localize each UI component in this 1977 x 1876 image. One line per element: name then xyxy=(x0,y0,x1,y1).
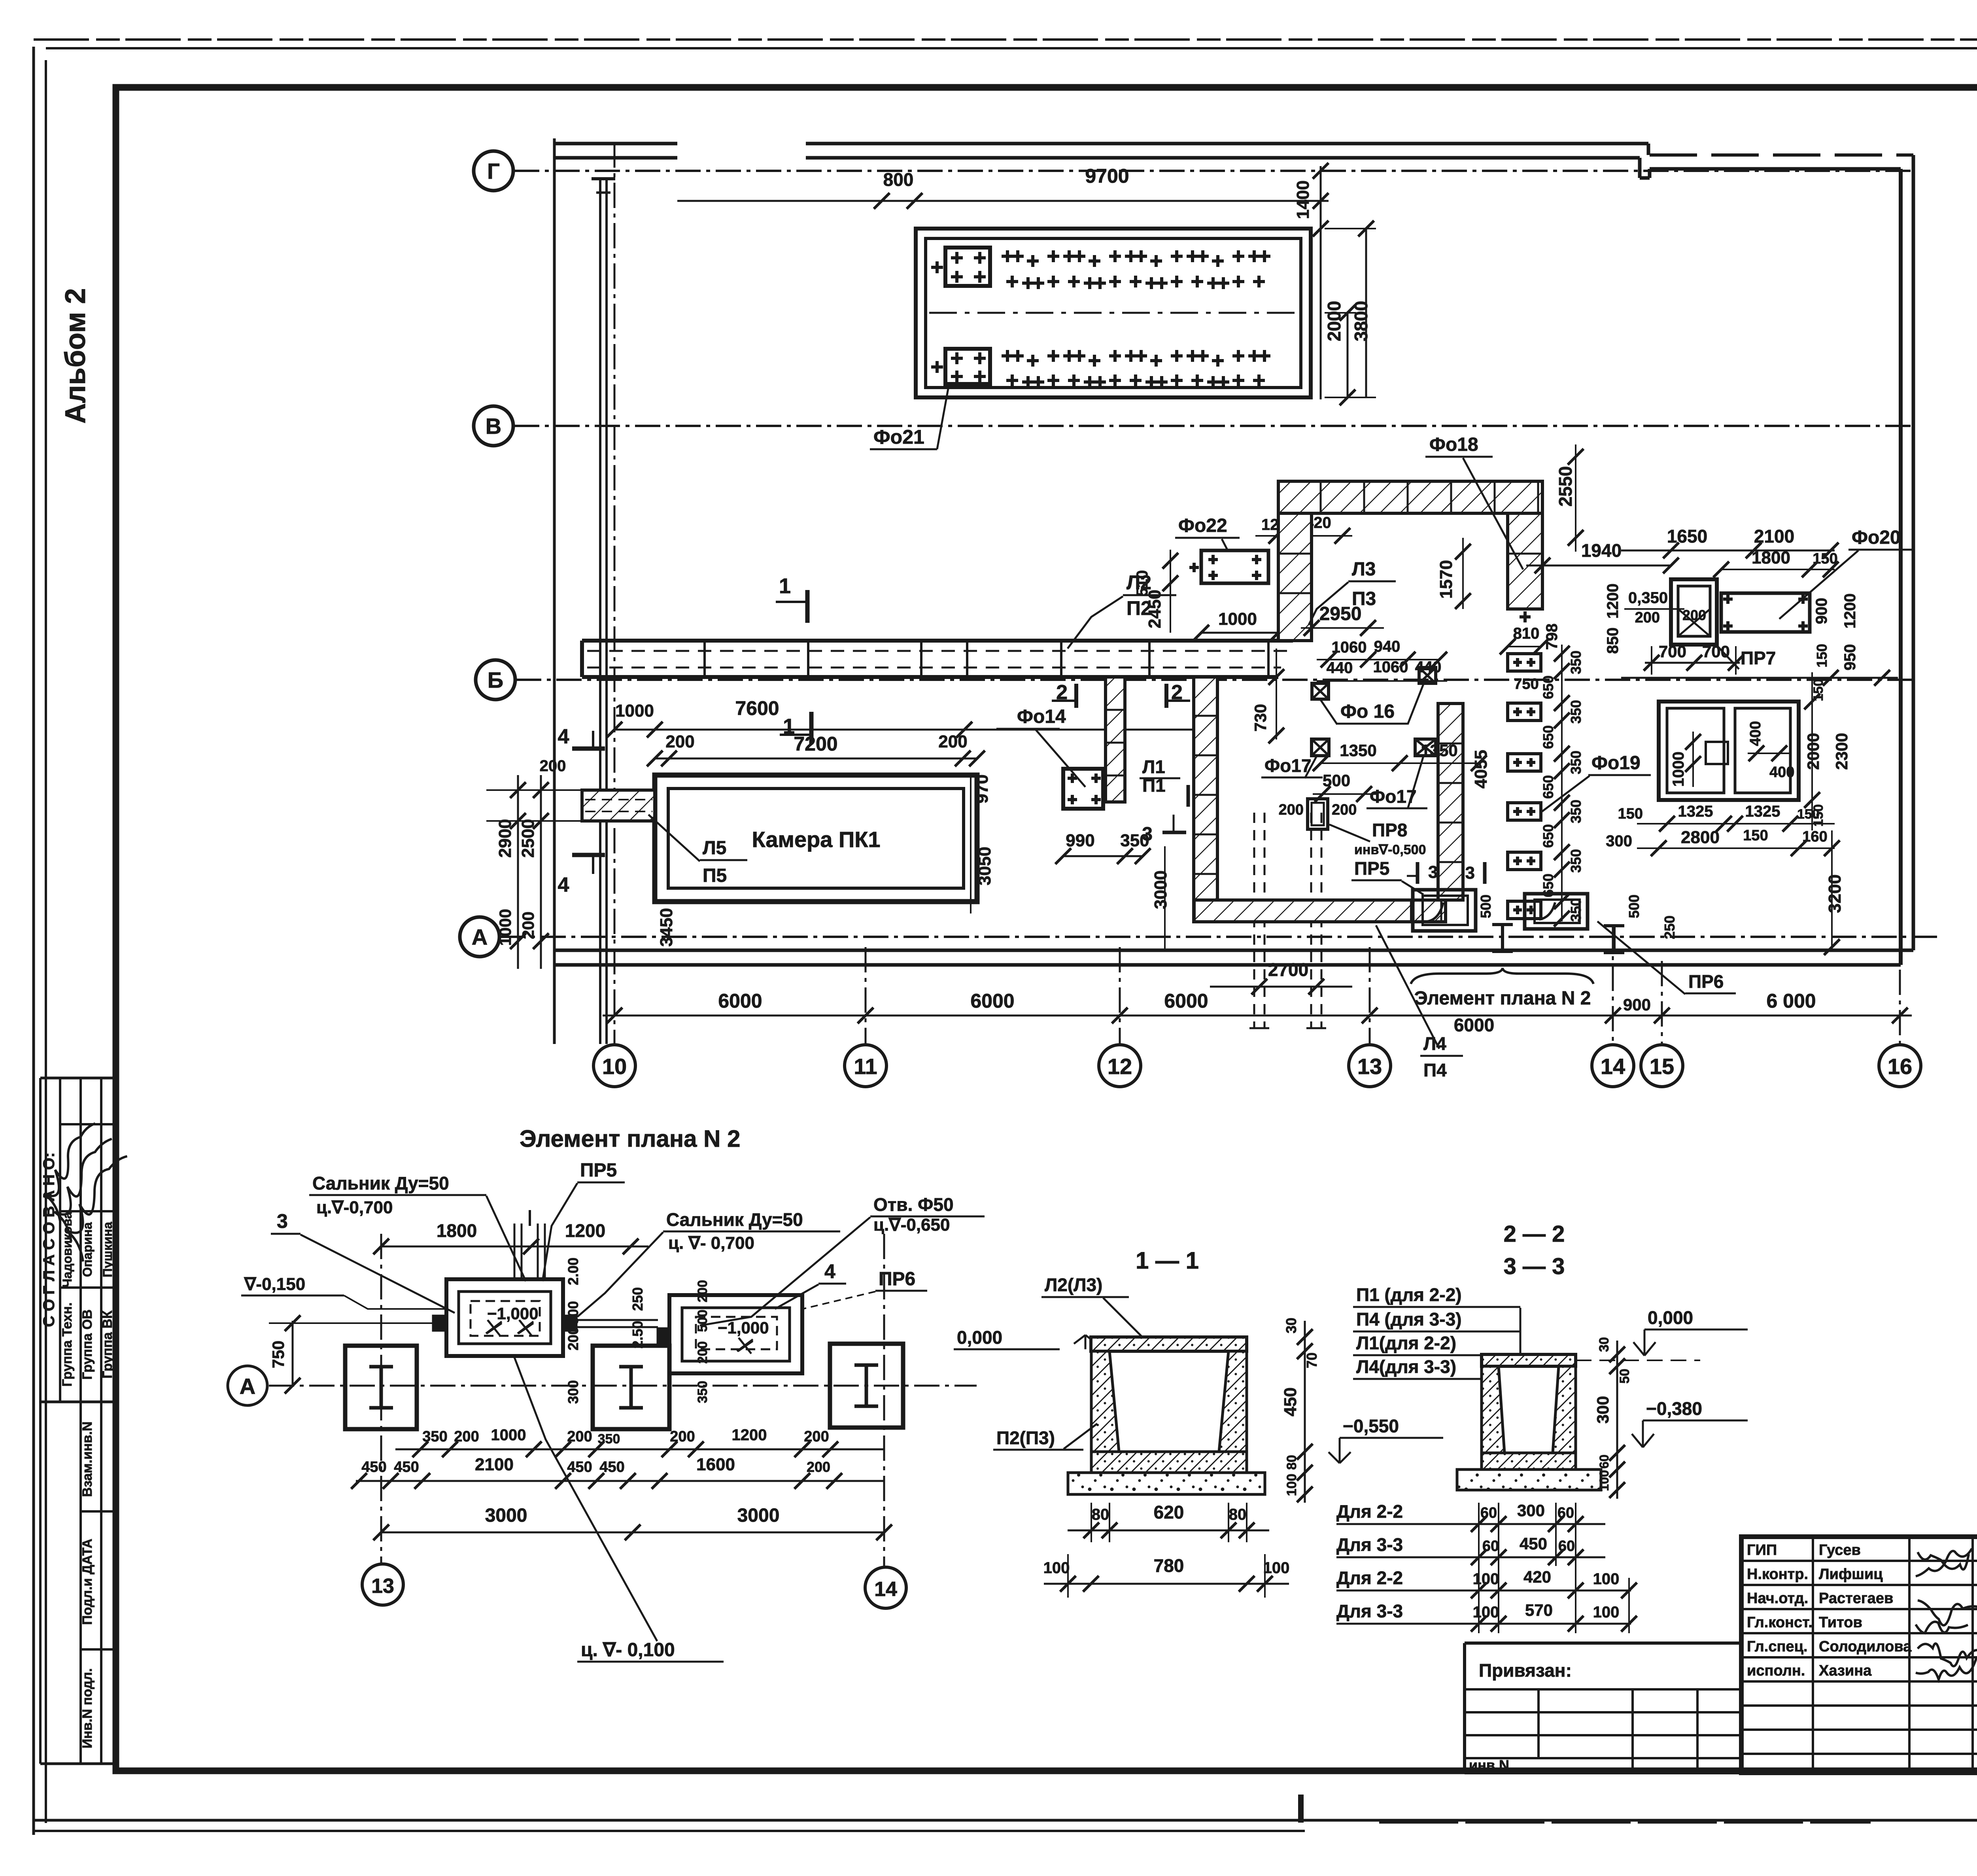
detail chamber ПР6 inner dashed xyxy=(696,1317,777,1349)
svg-text:150: 150 xyxy=(1743,827,1768,844)
svg-text:1000: 1000 xyxy=(615,701,654,721)
dimension 1800 150 xyxy=(1721,569,1835,570)
svg-text:3: 3 xyxy=(1465,863,1475,883)
detail bottom dim row 2 xyxy=(356,1480,884,1482)
svg-text:850: 850 xyxy=(1604,628,1622,654)
section 2-2 bottom slab xyxy=(1482,1453,1576,1469)
svg-text:исполн.: исполн. xyxy=(1747,1662,1805,1679)
svg-text:А: А xyxy=(240,1374,255,1399)
svg-text:ПР6: ПР6 xyxy=(879,1269,915,1290)
foundation Фо14 square xyxy=(1063,769,1103,809)
svg-text:4: 4 xyxy=(558,725,569,748)
section 1-1 right dim column xyxy=(1304,1321,1306,1503)
axis circle Г xyxy=(474,151,513,191)
section 2-2 left wall xyxy=(1482,1366,1504,1453)
svg-text:6 000: 6 000 xyxy=(1766,990,1816,1012)
svg-text:200: 200 xyxy=(1279,802,1304,818)
svg-text:ПР5: ПР5 xyxy=(1354,858,1389,879)
svg-text:1325: 1325 xyxy=(1678,803,1713,820)
svg-text:13: 13 xyxy=(1357,1054,1382,1079)
svg-text:1570: 1570 xyxy=(1436,560,1456,599)
section 1-1 lid xyxy=(1091,1337,1247,1351)
axis line В xyxy=(514,425,1913,427)
svg-text:1600: 1600 xyxy=(696,1455,735,1474)
dimension 2550 vertical xyxy=(1575,444,1576,552)
axis circle А xyxy=(460,917,499,957)
svg-text:3050: 3050 xyxy=(975,847,994,885)
svg-text:450: 450 xyxy=(394,1459,419,1475)
svg-text:1200: 1200 xyxy=(1841,594,1859,629)
svg-text:Солодилова: Солодилова xyxy=(1819,1638,1912,1655)
svg-text:0,000: 0,000 xyxy=(957,1327,1002,1348)
axis circle 12 xyxy=(1099,1045,1141,1087)
svg-text:ПР7: ПР7 xyxy=(1741,648,1776,668)
svg-text:80: 80 xyxy=(1229,1506,1247,1523)
svg-text:А: А xyxy=(472,925,488,949)
detail chamber ПР5 inner dashed xyxy=(471,1301,540,1336)
svg-text:60: 60 xyxy=(1558,1538,1575,1555)
detail dim 1800 1200 row xyxy=(381,1246,648,1248)
title block left rows xyxy=(1741,1560,1977,1562)
svg-text:150: 150 xyxy=(1811,679,1826,702)
dimension 3200 vertical xyxy=(1831,830,1833,950)
svg-text:Фо19: Фо19 xyxy=(1591,753,1641,773)
section mark 4 upper xyxy=(572,747,605,751)
svg-text:350: 350 xyxy=(422,1428,447,1445)
detail axis А circle xyxy=(228,1366,267,1405)
svg-text:780: 780 xyxy=(1154,1555,1184,1576)
svg-text:300: 300 xyxy=(1517,1501,1545,1520)
foundation Фо21 anchor square bottom xyxy=(945,349,990,384)
svg-text:9700: 9700 xyxy=(1085,165,1129,187)
svg-text:12: 12 xyxy=(1108,1054,1132,1079)
svg-text:ц. ∇- 0,700: ц. ∇- 0,700 xyxy=(668,1233,754,1253)
section 1-1 left wall xyxy=(1091,1351,1119,1452)
svg-text:1060: 1060 xyxy=(1373,658,1408,676)
svg-text:П1 (для 2-2): П1 (для 2-2) xyxy=(1356,1284,1462,1305)
svg-text:П2(П3): П2(П3) xyxy=(996,1428,1055,1448)
axis line Г xyxy=(514,170,1913,172)
svg-text:80: 80 xyxy=(1092,1506,1109,1523)
svg-text:798: 798 xyxy=(1543,624,1561,650)
svg-text:200: 200 xyxy=(938,732,967,751)
svg-text:Фо 16: Фо 16 xyxy=(1340,701,1395,722)
section mark 3 flags xyxy=(1416,862,1419,884)
dimension 1570 vertical xyxy=(1462,538,1464,609)
svg-text:650: 650 xyxy=(1540,775,1556,799)
svg-text:250: 250 xyxy=(1661,915,1678,939)
svg-text:2 — 2: 2 — 2 xyxy=(1504,1221,1565,1247)
svg-text:2: 2 xyxy=(1056,681,1068,704)
section 2-2 lid xyxy=(1482,1354,1576,1366)
title block left columns xyxy=(1812,1537,1814,1773)
svg-text:1: 1 xyxy=(779,574,791,598)
building top wall right segment xyxy=(1650,153,1913,157)
detail chamber ПР6 stub xyxy=(658,1329,669,1342)
svg-text:1350: 1350 xyxy=(1340,741,1376,760)
svg-text:2.50: 2.50 xyxy=(629,1321,646,1348)
svg-text:Н.контр.: Н.контр. xyxy=(1747,1566,1808,1583)
svg-text:7200: 7200 xyxy=(794,733,837,755)
channel Л1 П1 vertical strip xyxy=(1106,677,1125,802)
svg-text:350: 350 xyxy=(695,1381,710,1403)
svg-text:3: 3 xyxy=(277,1210,288,1232)
svg-text:2450: 2450 xyxy=(1145,590,1164,628)
detail chamber ПР5 outer xyxy=(446,1279,563,1356)
svg-text:11: 11 xyxy=(854,1054,877,1079)
svg-text:Растегаев: Растегаев xyxy=(1819,1590,1893,1607)
axis circle Б xyxy=(476,660,515,700)
section 1-1 right wall xyxy=(1219,1351,1247,1452)
foundation Фо21 centerline xyxy=(929,312,1297,314)
page outer border top lines xyxy=(34,38,1977,41)
loop channel bottom wall xyxy=(1194,900,1446,922)
svg-text:100: 100 xyxy=(1593,1604,1620,1621)
svg-text:150: 150 xyxy=(1618,806,1643,822)
svg-text:Гл.конст.: Гл.конст. xyxy=(1747,1614,1813,1631)
channel Л3 П3 top band xyxy=(1278,481,1542,513)
detail bottom dim row 3000 3000 xyxy=(381,1532,884,1534)
svg-text:П4 (для 3-3): П4 (для 3-3) xyxy=(1356,1309,1462,1329)
dimension 800 and 9700 top xyxy=(677,200,1329,202)
svg-text:Г: Г xyxy=(487,159,500,183)
kamera PK1 inner rect xyxy=(668,789,964,888)
section mark 1 lower xyxy=(809,712,814,744)
building bottom wall xyxy=(554,949,1913,952)
svg-text:−0,550: −0,550 xyxy=(1343,1416,1399,1436)
svg-text:620: 620 xyxy=(1154,1502,1184,1522)
svg-text:970: 970 xyxy=(972,774,992,803)
svg-text:3000: 3000 xyxy=(737,1505,780,1526)
detail axis 14 line xyxy=(883,1234,885,1566)
pit ПР8 rect xyxy=(1308,799,1328,829)
svg-text:750: 750 xyxy=(269,1341,287,1368)
svg-text:350: 350 xyxy=(1568,700,1584,724)
svg-text:Гусев: Гусев xyxy=(1819,1542,1861,1558)
big pit small inner rect xyxy=(1706,742,1728,764)
svg-text:Л5: Л5 xyxy=(703,838,726,859)
svg-text:0,000: 0,000 xyxy=(1648,1307,1693,1328)
svg-text:2800: 2800 xyxy=(1681,828,1720,847)
dimension 200 7200 200 row xyxy=(655,758,977,760)
svg-text:500: 500 xyxy=(695,1310,710,1332)
svg-text:Фо21: Фо21 xyxy=(873,426,924,448)
channel Л5 П5 stub into kamera xyxy=(582,790,655,821)
svg-text:3000: 3000 xyxy=(1151,870,1170,909)
svg-text:2500: 2500 xyxy=(518,819,538,858)
section 1-1 bottom dims 100 780 100 xyxy=(1044,1583,1289,1585)
svg-text:100: 100 xyxy=(1473,1604,1499,1621)
foundation Фо19 pit rects xyxy=(1508,654,1541,671)
svg-text:300: 300 xyxy=(565,1380,581,1404)
svg-text:Хазина: Хазина xyxy=(1819,1662,1872,1679)
svg-text:3800: 3800 xyxy=(1351,301,1371,341)
section 2-2 right wall xyxy=(1553,1366,1576,1453)
svg-text:2000: 2000 xyxy=(1804,733,1822,770)
svg-text:50: 50 xyxy=(1617,1369,1632,1384)
svg-text:ГИП: ГИП xyxy=(1747,1542,1777,1558)
svg-text:2100: 2100 xyxy=(1754,526,1794,547)
svg-text:−1,000: −1,000 xyxy=(487,1304,539,1323)
crane rail line at axis 10 xyxy=(599,179,601,1044)
svg-text:10: 10 xyxy=(602,1054,627,1079)
svg-text:Чадовикова: Чадовикова xyxy=(60,1212,74,1288)
detail axis 13 circle xyxy=(362,1564,403,1605)
svg-text:420: 420 xyxy=(1523,1568,1551,1586)
svg-text:Титов: Титов xyxy=(1819,1614,1862,1631)
detail axis 13 line xyxy=(380,1234,382,1563)
svg-text:350: 350 xyxy=(598,1432,620,1447)
svg-text:−0,380: −0,380 xyxy=(1646,1398,1702,1419)
svg-text:Сальник Ду=50: Сальник Ду=50 xyxy=(666,1209,803,1230)
channel Л4 П4 band along axis А xyxy=(1194,900,1412,922)
svg-text:350: 350 xyxy=(1568,651,1584,674)
section mark 3 mid xyxy=(1162,831,1186,834)
axis vertical line 10 xyxy=(614,142,616,1045)
title block outer rect xyxy=(1741,1537,1977,1773)
svg-text:450: 450 xyxy=(1520,1534,1547,1553)
big pit bottom dims xyxy=(1637,823,1835,825)
privyazan grid xyxy=(1465,1711,1741,1713)
svg-text:570: 570 xyxy=(1525,1601,1553,1619)
svg-text:70: 70 xyxy=(1304,1352,1320,1368)
element chamber 1 in plan xyxy=(1413,890,1476,931)
riser pipes pair 2 xyxy=(1310,813,1312,1028)
detail axis 14 circle xyxy=(865,1567,906,1608)
svg-text:100: 100 xyxy=(1284,1474,1299,1496)
svg-text:800: 800 xyxy=(883,169,914,190)
svg-text:200: 200 xyxy=(665,732,694,751)
foundation square Фо16 right xyxy=(1419,668,1436,683)
svg-text:3000: 3000 xyxy=(485,1505,527,1526)
axis circle В xyxy=(474,406,513,446)
dimension 1650 2100 xyxy=(1621,550,1835,552)
foundation Фо21 plus mark rows xyxy=(1002,255,1013,258)
svg-text:1060: 1060 xyxy=(1332,639,1367,656)
svg-text:60: 60 xyxy=(1482,1538,1499,1555)
svg-text:250: 250 xyxy=(629,1287,646,1311)
svg-text:инв.N: инв.N xyxy=(1469,1757,1509,1773)
big pit outer rect xyxy=(1659,702,1799,800)
svg-text:200: 200 xyxy=(695,1280,710,1303)
dimension 2000 3800 right of Фо21 xyxy=(1347,313,1349,397)
svg-text:3: 3 xyxy=(1428,862,1438,882)
svg-text:7600: 7600 xyxy=(735,697,779,719)
svg-text:Л2(Л3): Л2(Л3) xyxy=(1045,1275,1102,1295)
svg-text:450: 450 xyxy=(361,1459,386,1475)
foundation Фо21 anchor square top xyxy=(945,248,990,286)
svg-text:2: 2 xyxy=(1171,681,1183,704)
svg-text:2300: 2300 xyxy=(1832,733,1851,770)
svg-text:200: 200 xyxy=(1635,609,1660,626)
axis circle 14 xyxy=(1592,1045,1634,1087)
svg-text:1800: 1800 xyxy=(1752,548,1790,567)
svg-text:3450: 3450 xyxy=(657,908,676,947)
svg-text:300: 300 xyxy=(1606,832,1632,850)
section 2-2 base pad xyxy=(1457,1469,1601,1490)
svg-text:810: 810 xyxy=(1513,625,1540,642)
section mark 2 right xyxy=(1164,684,1168,708)
svg-text:500: 500 xyxy=(1626,895,1642,918)
svg-text:150: 150 xyxy=(1814,644,1830,668)
dimension 970 and 3050 vertical xyxy=(970,775,971,913)
left vertical dims 2900 2500 xyxy=(517,775,519,969)
svg-text:650: 650 xyxy=(1540,725,1556,749)
svg-text:150: 150 xyxy=(1813,550,1837,567)
detail chamber ПР5 hatch marks xyxy=(486,1320,502,1336)
svg-text:990: 990 xyxy=(1066,831,1094,850)
svg-text:60: 60 xyxy=(1557,1505,1574,1521)
svg-text:1000: 1000 xyxy=(491,1426,526,1444)
axis line А xyxy=(500,936,1941,938)
channel Л3 П3 right leg xyxy=(1508,513,1542,609)
svg-text:350: 350 xyxy=(1568,751,1584,774)
axis vertical line 13 xyxy=(1369,947,1371,1045)
section 1-1 base pad xyxy=(1068,1473,1265,1494)
svg-text:1: 1 xyxy=(783,715,795,738)
detail chamber ПР6 hatch mark xyxy=(737,1338,753,1354)
svg-text:Отв. Ф50: Отв. Ф50 xyxy=(873,1194,954,1215)
svg-text:Л1(для 2-2): Л1(для 2-2) xyxy=(1356,1333,1456,1353)
svg-text:ц. ∇- 0,100: ц. ∇- 0,100 xyxy=(581,1640,675,1660)
svg-text:Для 2-2: Для 2-2 xyxy=(1336,1568,1403,1588)
svg-text:300: 300 xyxy=(1593,1396,1612,1424)
svg-text:350: 350 xyxy=(1568,800,1584,823)
svg-text:Пушкина: Пушкина xyxy=(100,1222,115,1277)
svg-text:2900: 2900 xyxy=(495,819,515,858)
dimension 990 350 xyxy=(1063,855,1143,857)
svg-text:Элемент плана N 2: Элемент плана N 2 xyxy=(520,1125,741,1152)
svg-text:200: 200 xyxy=(519,912,537,939)
svg-text:1350: 1350 xyxy=(1421,741,1457,760)
svg-text:200: 200 xyxy=(540,757,566,775)
title block signatures xyxy=(1918,1552,1969,1570)
channel Л2 П2 segment dividers xyxy=(703,641,706,677)
svg-text:500: 500 xyxy=(565,1301,581,1325)
svg-text:60: 60 xyxy=(1480,1505,1497,1521)
section mark 1 upper xyxy=(805,590,810,623)
foundation Фо21 outer rect xyxy=(916,229,1311,397)
axis circle 11 xyxy=(845,1045,886,1087)
svg-text:350: 350 xyxy=(1568,898,1584,922)
svg-text:4: 4 xyxy=(558,874,569,896)
svg-text:200: 200 xyxy=(567,1428,592,1445)
svg-text:200: 200 xyxy=(695,1341,710,1364)
svg-text:80: 80 xyxy=(1284,1455,1299,1470)
svg-text:0,350: 0,350 xyxy=(1628,589,1668,607)
svg-text:1200: 1200 xyxy=(1604,584,1622,619)
svg-text:1200: 1200 xyxy=(732,1426,767,1444)
svg-text:3 — 3: 3 — 3 xyxy=(1504,1254,1565,1279)
foundation Фо22 rect xyxy=(1201,550,1268,583)
svg-text:200: 200 xyxy=(565,1327,581,1350)
svg-text:14: 14 xyxy=(874,1578,897,1601)
section mark 2 left xyxy=(1074,684,1078,708)
svg-text:200: 200 xyxy=(670,1428,695,1445)
svg-text:900: 900 xyxy=(1813,598,1830,624)
svg-text:650: 650 xyxy=(1540,824,1556,848)
svg-text:6000: 6000 xyxy=(1454,1015,1494,1035)
svg-text:650: 650 xyxy=(1540,675,1556,699)
section mark 2 small lower xyxy=(1187,785,1190,807)
svg-text:3200: 3200 xyxy=(1825,874,1845,913)
left table signatures xyxy=(25,1122,129,1221)
svg-text:200: 200 xyxy=(807,1459,830,1475)
svg-text:инв∇-0,500: инв∇-0,500 xyxy=(1354,842,1426,857)
svg-text:Камера ПК1: Камера ПК1 xyxy=(752,827,880,852)
loop channel right wall xyxy=(1438,703,1463,900)
detail bottom dim row 1 xyxy=(395,1449,884,1450)
svg-text:700: 700 xyxy=(1659,642,1686,661)
svg-text:Альбом 2: Альбом 2 xyxy=(60,288,91,424)
svg-text:200: 200 xyxy=(454,1428,479,1445)
svg-text:30: 30 xyxy=(1597,1337,1612,1352)
channel Л3 П3 left leg xyxy=(1278,513,1312,641)
axis vertical line 11 xyxy=(865,947,867,1045)
svg-text:30: 30 xyxy=(1283,1318,1299,1333)
svg-text:1000: 1000 xyxy=(1670,752,1687,787)
section 1-1 bottom dims 80 620 80 xyxy=(1068,1530,1269,1532)
svg-text:Группа Техн.: Группа Техн. xyxy=(60,1302,75,1386)
svg-text:Гл.спец.: Гл.спец. xyxy=(1747,1638,1807,1655)
building top wall jog xyxy=(1647,144,1650,155)
section 2-2 right dim column xyxy=(1616,1341,1618,1499)
svg-text:П5: П5 xyxy=(703,865,727,886)
detail connecting duct xyxy=(576,1319,658,1321)
svg-text:Б: Б xyxy=(488,668,503,692)
dimension 1350 1350 xyxy=(1321,762,1479,764)
svg-text:4055: 4055 xyxy=(1471,750,1491,789)
svg-text:1000: 1000 xyxy=(496,909,514,946)
svg-text:2000: 2000 xyxy=(1324,301,1344,341)
axis line Б xyxy=(516,679,1913,681)
svg-text:Для 2-2: Для 2-2 xyxy=(1336,1501,1403,1522)
svg-text:450: 450 xyxy=(567,1459,592,1475)
svg-text:Сальник Ду=50: Сальник Ду=50 xyxy=(312,1173,449,1193)
svg-text:200: 200 xyxy=(1682,607,1706,623)
dimension 1940 xyxy=(1526,565,1671,567)
svg-text:730: 730 xyxy=(1251,704,1270,732)
svg-text:Фо14: Фо14 xyxy=(1017,706,1066,727)
svg-text:Для 3-3: Для 3-3 xyxy=(1336,1601,1403,1621)
svg-text:П4: П4 xyxy=(1423,1060,1447,1080)
svg-text:440: 440 xyxy=(1327,659,1353,677)
svg-text:Нач.отд.: Нач.отд. xyxy=(1747,1590,1808,1607)
svg-text:Фо17: Фо17 xyxy=(1264,755,1312,776)
svg-text:450: 450 xyxy=(599,1459,624,1475)
svg-text:ПР5: ПР5 xyxy=(580,1160,617,1181)
svg-text:1940: 1940 xyxy=(1581,540,1622,561)
building top wall left segment xyxy=(554,142,677,146)
svg-text:100: 100 xyxy=(1263,1559,1290,1577)
svg-text:2100: 2100 xyxy=(475,1455,514,1474)
axis vertical line 14 xyxy=(1612,925,1614,1045)
svg-text:200: 200 xyxy=(1332,802,1357,818)
detail axis А line xyxy=(269,1385,977,1387)
axis circle 15 xyxy=(1641,1045,1683,1087)
foundation square Фо16 left xyxy=(1312,683,1329,699)
svg-text:100: 100 xyxy=(1597,1470,1611,1491)
element chamber 2 in plan xyxy=(1525,894,1588,929)
big pit right dims 2000 2300 xyxy=(1811,672,1813,830)
svg-text:2550: 2550 xyxy=(1555,466,1576,507)
i-beam columns on axis А xyxy=(1492,923,1513,926)
svg-text:1200: 1200 xyxy=(565,1220,605,1241)
detail chamber ПР5 stubs xyxy=(433,1316,446,1330)
svg-text:Л4: Л4 xyxy=(1423,1033,1446,1054)
big pit inner rects xyxy=(1667,708,1724,793)
building left wall at axis 10 xyxy=(553,138,556,1044)
